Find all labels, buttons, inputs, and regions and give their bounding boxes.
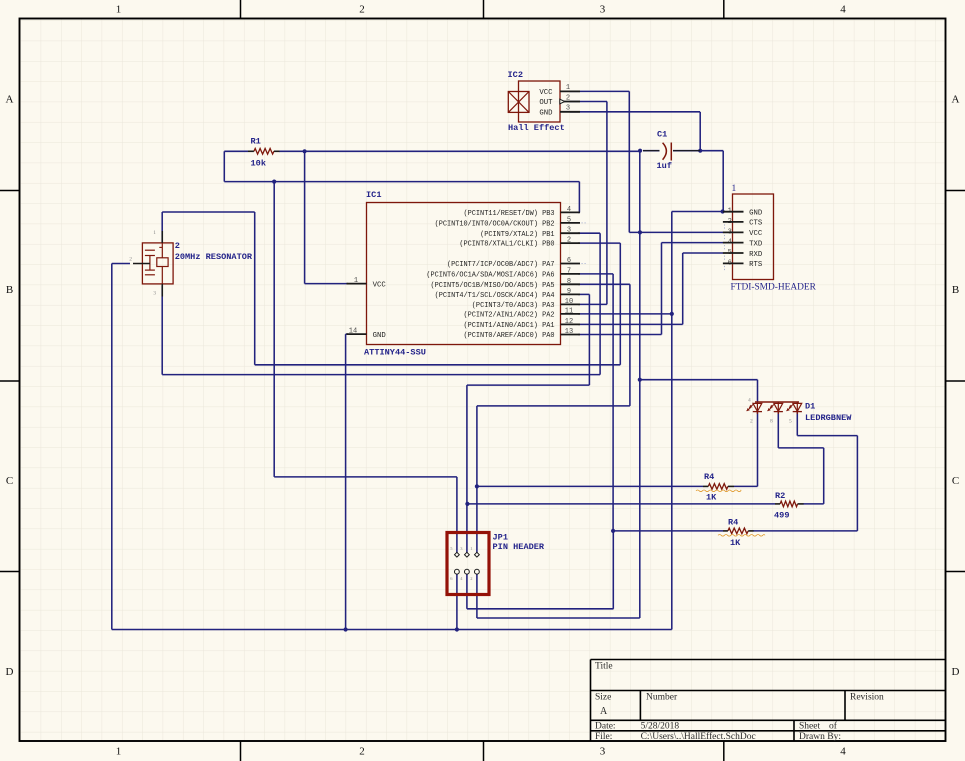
svg-text:(PCINT3/T0/ADC3) PA3: (PCINT3/T0/ADC3) PA3 [472, 302, 555, 310]
svg-text:(PCINT6/OC1A/SDA/MOSI/ADC6) PA: (PCINT6/OC1A/SDA/MOSI/ADC6) PA6 [426, 272, 554, 280]
svg-text:JP1: JP1 [493, 533, 508, 543]
svg-text:13: 13 [565, 328, 573, 336]
svg-text:RTS: RTS [749, 261, 763, 269]
svg-text:1K: 1K [730, 538, 741, 548]
svg-text:(PCINT7/ICP/OC0B/ADC7) PA7: (PCINT7/ICP/OC0B/ADC7) PA7 [447, 261, 555, 269]
svg-text:R1: R1 [251, 137, 261, 147]
svg-text:B: B [6, 284, 13, 296]
svg-text:R4: R4 [728, 518, 738, 528]
svg-text:PIN HEADER: PIN HEADER [493, 542, 545, 552]
svg-text:VCC: VCC [539, 89, 553, 97]
svg-text:7: 7 [567, 267, 571, 275]
svg-text:1: 1 [116, 746, 122, 758]
svg-text:Title: Title [595, 662, 613, 672]
svg-text:GND: GND [539, 109, 553, 117]
svg-text:5: 5 [789, 419, 792, 425]
svg-text:LEDRGBNEW: LEDRGBNEW [805, 413, 852, 423]
svg-text:1: 1 [354, 277, 358, 285]
svg-text:C:\Users\..\HallEffect.SchDoc: C:\Users\..\HallEffect.SchDoc [641, 731, 756, 742]
svg-text:(PCINT8/XTAL1/CLKI) PB0: (PCINT8/XTAL1/CLKI) PB0 [459, 241, 554, 249]
svg-text:1uf: 1uf [657, 161, 672, 171]
svg-text:Drawn By:: Drawn By: [799, 732, 841, 742]
svg-text:RXD: RXD [749, 251, 763, 259]
svg-text:Date:: Date: [595, 722, 616, 732]
svg-text:(PCINT11/RESET/DW) PB3: (PCINT11/RESET/DW) PB3 [464, 210, 555, 218]
svg-text:12: 12 [565, 318, 573, 326]
svg-text:A: A [600, 706, 608, 717]
svg-text:14: 14 [349, 327, 357, 335]
svg-text:2: 2 [567, 237, 571, 245]
svg-text:Size: Size [595, 693, 611, 703]
svg-text:8: 8 [567, 278, 571, 286]
svg-text:GND: GND [749, 210, 763, 218]
svg-text:C: C [6, 475, 13, 487]
svg-text:IC1: IC1 [366, 190, 381, 200]
svg-text:Number: Number [646, 693, 678, 703]
svg-text:3: 3 [600, 746, 606, 758]
svg-text:Hall Effect: Hall Effect [508, 123, 565, 133]
svg-text:1: 1 [732, 184, 737, 194]
svg-text:D1: D1 [805, 402, 815, 412]
svg-text:(PCINT0/AREF/ADC0) PA0: (PCINT0/AREF/ADC0) PA0 [464, 332, 555, 340]
svg-text:B: B [952, 284, 959, 296]
svg-text:5: 5 [567, 216, 571, 224]
svg-text:2: 2 [175, 241, 180, 251]
svg-text:(PCINT2/AIN1/ADC2) PA2: (PCINT2/AIN1/ADC2) PA2 [464, 312, 555, 320]
svg-text:Revision: Revision [850, 693, 884, 703]
svg-text:CTS: CTS [749, 220, 763, 228]
svg-text:VCC: VCC [373, 281, 387, 289]
svg-text:2: 2 [129, 257, 132, 263]
svg-text:3: 3 [600, 4, 606, 16]
svg-text:2: 2 [750, 419, 753, 425]
svg-text:Sheet: Sheet [799, 722, 820, 732]
svg-text:IC2: IC2 [508, 70, 523, 80]
svg-text:(PCINT4/T1/SCL/OSCK/ADC4) PA4: (PCINT4/T1/SCL/OSCK/ADC4) PA4 [435, 292, 555, 300]
svg-text:6: 6 [567, 257, 571, 265]
svg-text:4: 4 [840, 746, 846, 758]
svg-text:FTDI-SMD-HEADER: FTDI-SMD-HEADER [731, 283, 817, 293]
svg-text:8: 8 [770, 419, 773, 425]
svg-text:ATTINY44-SSU: ATTINY44-SSU [364, 348, 426, 358]
svg-text:D: D [952, 666, 960, 678]
svg-text:File:: File: [595, 732, 612, 742]
svg-text:A: A [952, 94, 960, 106]
svg-text:11: 11 [565, 307, 573, 315]
svg-text:A: A [6, 94, 14, 106]
svg-text:3: 3 [153, 290, 156, 296]
svg-text:(PCINT1/AIN0/ADC1) PA1: (PCINT1/AIN0/ADC1) PA1 [464, 322, 555, 330]
svg-text:4: 4 [567, 206, 571, 214]
svg-text:C1: C1 [657, 130, 667, 140]
svg-text:20MHz RESONATOR: 20MHz RESONATOR [175, 252, 253, 262]
svg-text:1: 1 [116, 4, 122, 16]
svg-text:OUT: OUT [539, 99, 553, 107]
svg-text:VCC: VCC [749, 230, 763, 238]
svg-text:TXD: TXD [749, 240, 763, 248]
svg-text:10k: 10k [251, 159, 266, 169]
svg-text:R2: R2 [775, 491, 785, 501]
svg-text:3: 3 [567, 227, 571, 235]
svg-text:10: 10 [565, 298, 573, 306]
svg-text:1: 1 [470, 546, 472, 551]
svg-text:D: D [6, 666, 14, 678]
svg-text:2: 2 [359, 4, 365, 16]
svg-text:2: 2 [359, 746, 365, 758]
svg-text:9: 9 [567, 288, 571, 296]
svg-text:4: 4 [748, 398, 751, 404]
svg-text:GND: GND [373, 332, 387, 340]
svg-text:R4: R4 [704, 472, 714, 482]
svg-text:of: of [829, 721, 838, 732]
svg-text:(PCINT9/XTAL2) PB1: (PCINT9/XTAL2) PB1 [480, 231, 554, 239]
svg-text:C: C [952, 475, 959, 487]
svg-text:1: 1 [153, 230, 156, 236]
svg-text:(PCINT5/OC1B/MISO/DO/ADC5) PA5: (PCINT5/OC1B/MISO/DO/ADC5) PA5 [430, 282, 554, 290]
svg-text:(PCINT10/INT0/OC0A/CKOUT) PB2: (PCINT10/INT0/OC0A/CKOUT) PB2 [435, 221, 555, 229]
svg-text:2: 2 [470, 576, 472, 581]
svg-text:1K: 1K [706, 493, 717, 503]
svg-text:499: 499 [774, 511, 789, 521]
svg-text:5/28/2018: 5/28/2018 [641, 722, 680, 732]
svg-text:4: 4 [840, 4, 846, 16]
